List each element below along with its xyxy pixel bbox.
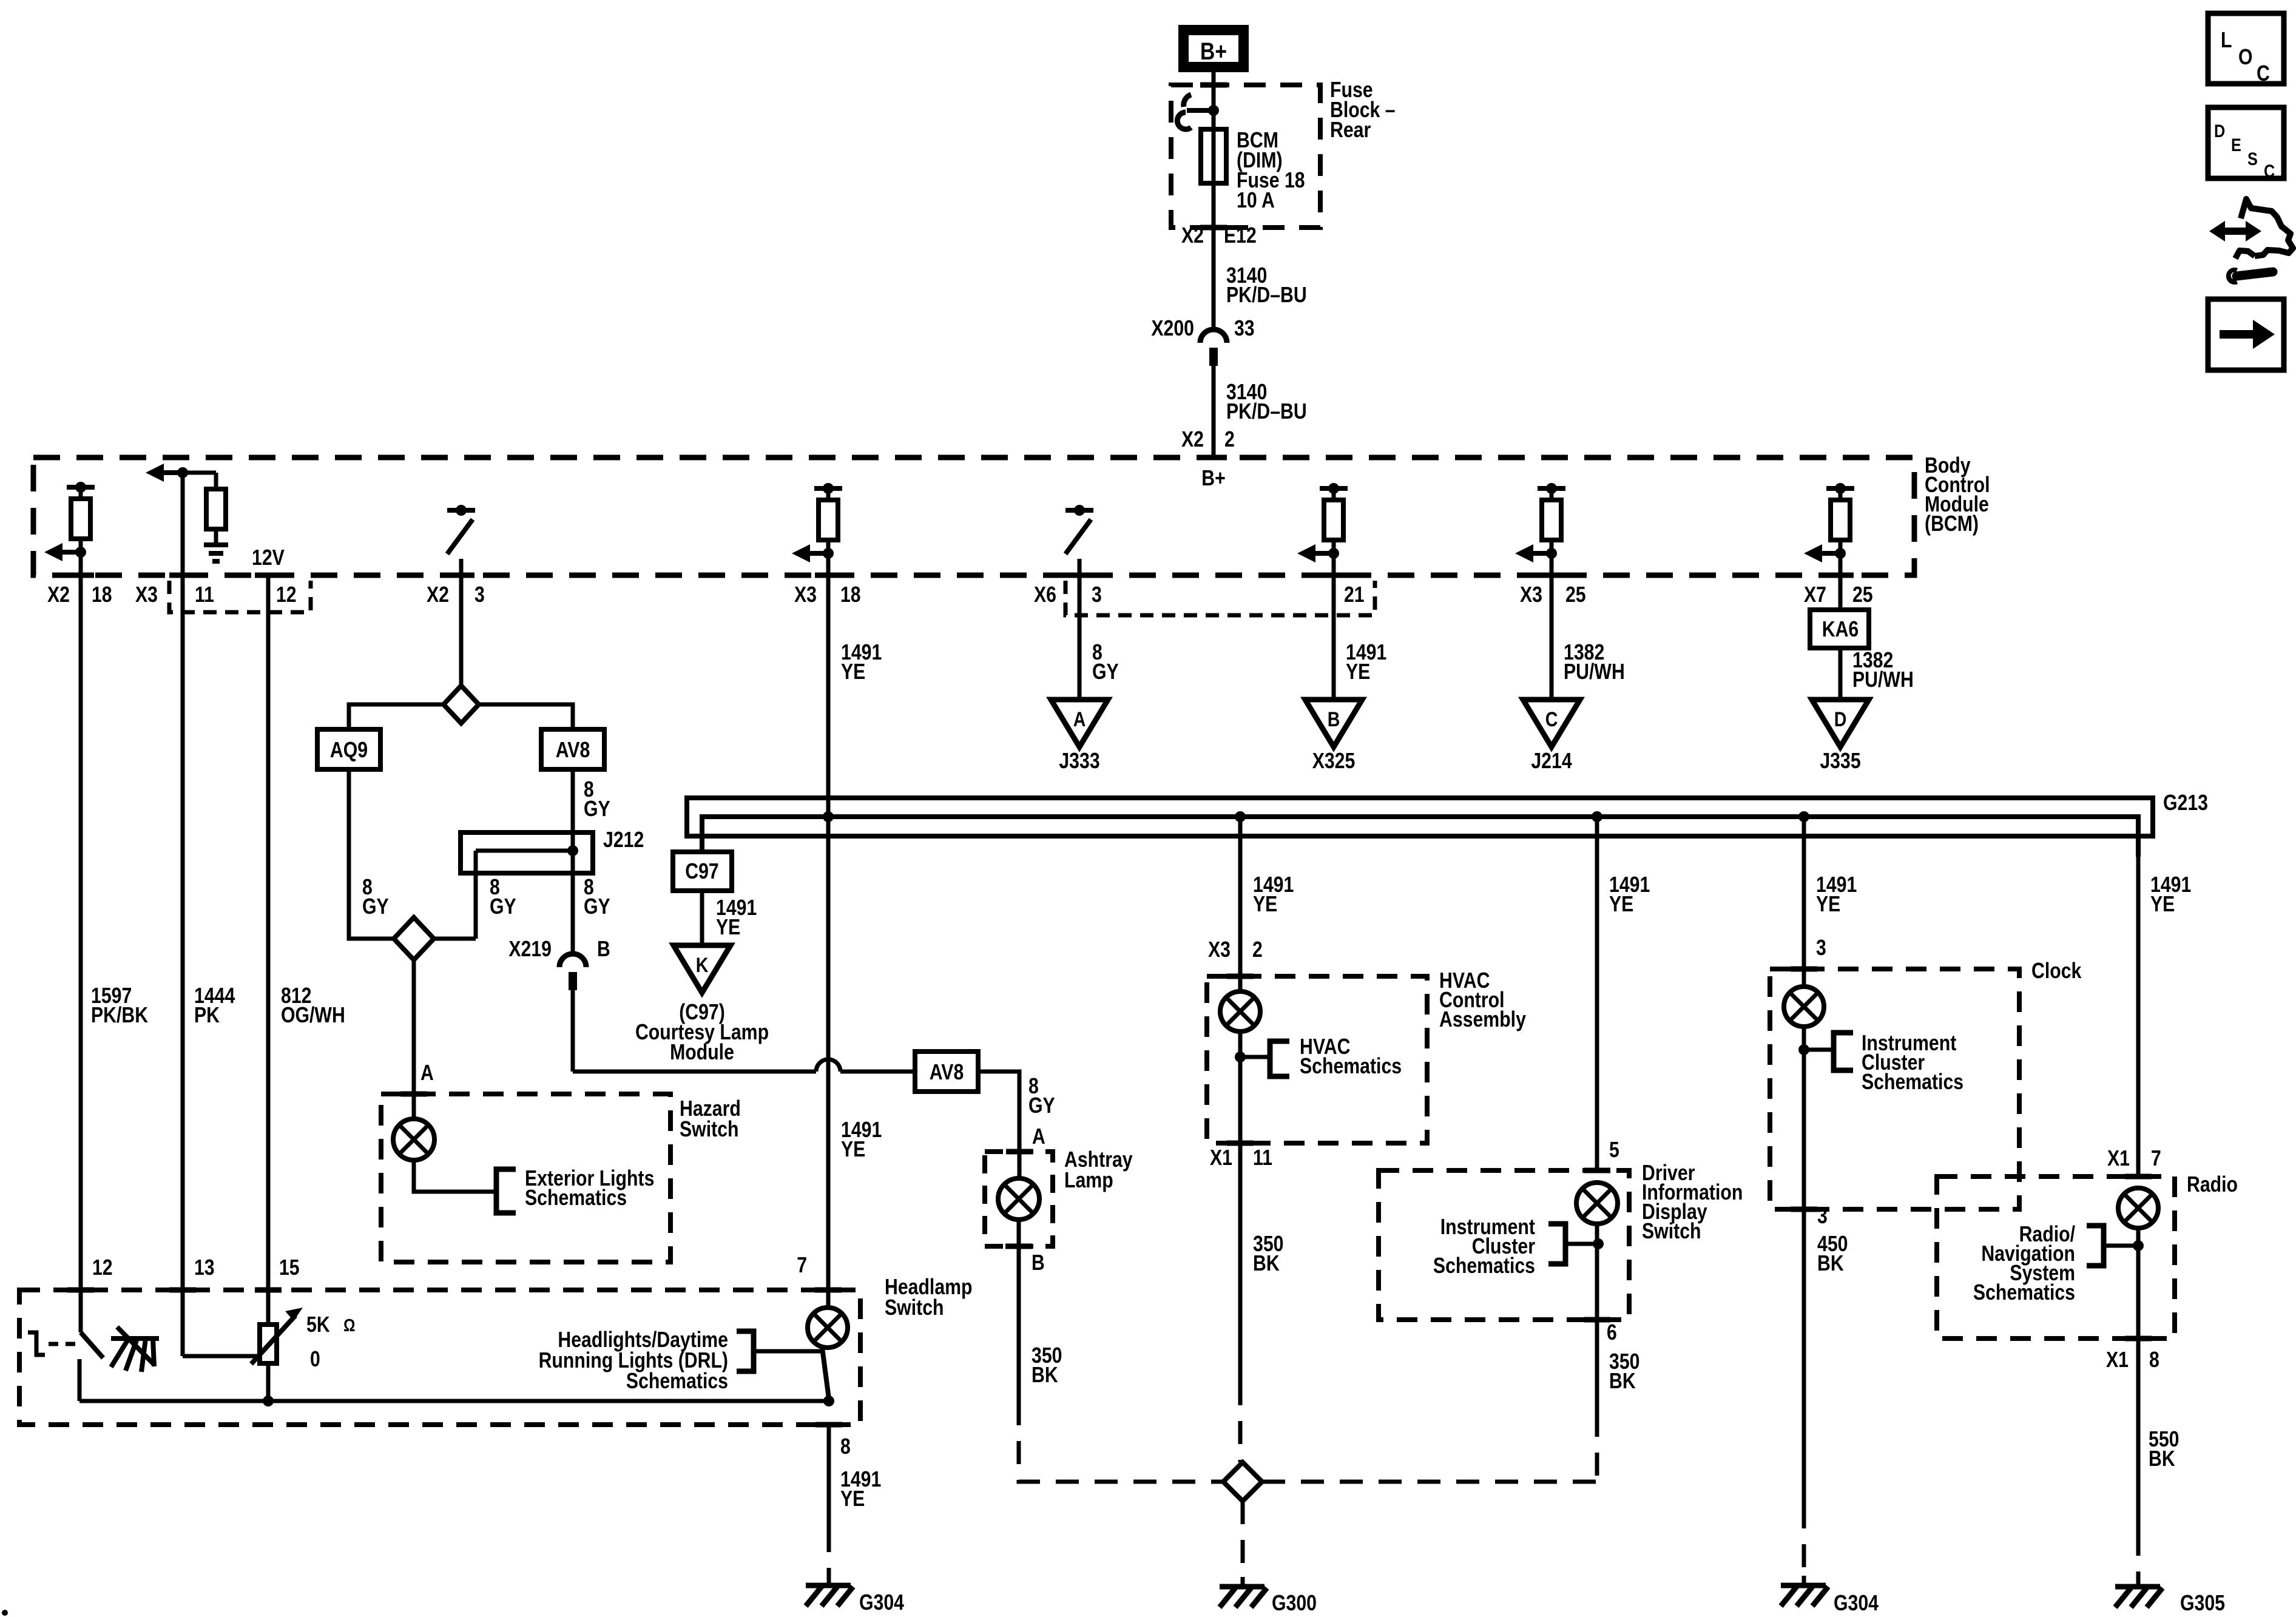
svg-text:GY: GY <box>362 894 389 919</box>
svg-text:X3: X3 <box>794 582 817 607</box>
svg-text:Schematics: Schematics <box>1973 1280 2075 1305</box>
fuse box AV8 lower <box>915 1052 978 1092</box>
svg-text:X1: X1 <box>2106 1347 2129 1372</box>
svg-text:15: 15 <box>279 1255 300 1280</box>
svg-text:33: 33 <box>1234 316 1255 340</box>
wire J212 left branch 8 GY <box>474 851 478 939</box>
svg-text:OG/WH: OG/WH <box>281 1002 345 1027</box>
diamond splice above AQ9/AV8 <box>444 686 479 723</box>
svg-text:C: C <box>1545 708 1558 731</box>
svg-text:12: 12 <box>276 582 297 607</box>
svg-text:5: 5 <box>1609 1137 1619 1162</box>
svg-text:X3: X3 <box>1520 582 1542 607</box>
svg-text:PK: PK <box>194 1002 220 1027</box>
BCM internal ground branch pin X3-11 <box>177 467 188 478</box>
svg-text:8: 8 <box>2149 1347 2159 1372</box>
headlamp switch lamp pin 7 <box>826 1290 831 1308</box>
wire C97 to K triangle 1491 YE <box>700 891 704 944</box>
connector sub-box pins 3-21 <box>1065 581 1375 615</box>
svg-text:3: 3 <box>1816 935 1826 960</box>
BCM pin ticks on bottom border <box>67 573 94 578</box>
svg-text:18: 18 <box>840 582 861 607</box>
svg-text:Rear: Rear <box>1330 117 1371 142</box>
svg-text:O: O <box>2238 44 2253 69</box>
splice box C97 <box>673 852 732 891</box>
svg-text:Lamp: Lamp <box>1064 1167 1113 1192</box>
BCM switch pin X6-3 <box>1065 508 1093 513</box>
wire HVAC lamp to pin X1-11 <box>1238 1031 1243 1143</box>
svg-text:BK: BK <box>1253 1251 1280 1275</box>
hazard switch lamp <box>412 1096 416 1119</box>
svg-text:7: 7 <box>2151 1146 2161 1170</box>
svg-text:Switch: Switch <box>680 1116 739 1141</box>
wire ashtray feed <box>1018 1149 1022 1152</box>
wire clock to G304 450 BK <box>1802 1209 1806 1505</box>
panel dimming symbol <box>111 1336 159 1341</box>
icon DESC box <box>2208 107 2284 178</box>
svg-text:Schematics: Schematics <box>1862 1069 1963 1094</box>
svg-text:5K: 5K <box>306 1312 330 1337</box>
mechanical link dashes <box>28 1332 45 1355</box>
bracket Radio Navigation System Schematics <box>2104 1244 2138 1248</box>
svg-text:BK: BK <box>1817 1251 1844 1275</box>
wire AV8/J212 to X219 8 GY <box>571 873 575 953</box>
svg-text:21: 21 <box>1344 582 1365 607</box>
svg-text:G213: G213 <box>2163 790 2208 815</box>
svg-text:GY: GY <box>490 894 516 919</box>
svg-text:3: 3 <box>474 582 485 607</box>
svg-text:B+: B+ <box>1200 38 1227 65</box>
wire ashtray to splice diamond 350 BK <box>1017 1246 1021 1402</box>
svg-text:X219: X219 <box>508 936 552 961</box>
connector X200 pin 33 <box>1200 329 1227 343</box>
svg-text:X3: X3 <box>1208 937 1231 962</box>
svg-text:(BCM): (BCM) <box>1925 511 1979 536</box>
fuse box AQ9 <box>317 729 380 769</box>
bus junction dots <box>823 811 834 822</box>
svg-text:BK: BK <box>2149 1446 2175 1471</box>
svg-text:X1: X1 <box>2107 1146 2130 1170</box>
page period mark <box>2 1610 8 1616</box>
svg-text:YE: YE <box>1816 891 1840 916</box>
svg-text:AV8: AV8 <box>556 737 590 762</box>
svg-text:PK/D–BU: PK/D–BU <box>1226 399 1307 424</box>
svg-text:J335: J335 <box>1820 748 1860 773</box>
svg-text:Switch: Switch <box>885 1295 944 1320</box>
wire 12V drop 812 OG/WH <box>266 578 271 1325</box>
wire fuse to X200 <box>1212 183 1216 328</box>
wire AV8 to J212 8 GY <box>571 769 575 832</box>
svg-text:B: B <box>1032 1250 1045 1275</box>
headlamp interior lamps switch blade pin 12 <box>79 1290 83 1332</box>
fuse holder clip symbol <box>1208 105 1219 116</box>
bracket Headlights DRL Schematics <box>737 1331 754 1371</box>
svg-text:18: 18 <box>92 582 112 607</box>
svg-text:25: 25 <box>1852 582 1873 607</box>
BCM driver resistor pin 21 <box>1320 486 1348 491</box>
triangle connector B X325 <box>1332 578 1336 700</box>
wire HVAC to splice diamond 350 BK <box>1238 1143 1243 1382</box>
svg-text:3: 3 <box>1817 1203 1828 1228</box>
headlamp switch rheostat 5K <box>181 1290 185 1356</box>
svg-text:13: 13 <box>194 1255 215 1280</box>
wire bus to HVAC 1491 YE <box>1238 817 1243 979</box>
svg-text:E12: E12 <box>1224 223 1257 248</box>
svg-text:6: 6 <box>1607 1320 1617 1345</box>
lower diamond splice <box>394 917 434 960</box>
svg-text:X7: X7 <box>1804 582 1826 607</box>
svg-text:0: 0 <box>310 1346 320 1371</box>
wire AQ9 to lower diamond 8 GY <box>349 769 394 939</box>
HVAC backlight lamp <box>1238 976 1243 991</box>
Radio dashed box <box>1937 1176 2175 1338</box>
svg-text:AQ9: AQ9 <box>330 737 368 762</box>
BCM driver resistor pin X2-18 <box>67 485 95 490</box>
splice box J212 <box>461 832 593 873</box>
wire DID to splice diamond 350 BK <box>1595 1320 1599 1414</box>
svg-text:G305: G305 <box>2180 1590 2225 1615</box>
clock lamp <box>1802 969 1806 987</box>
wire X200 to BCM <box>1212 366 1216 460</box>
svg-text:Schematics: Schematics <box>626 1368 728 1393</box>
svg-text:X2: X2 <box>1181 427 1204 451</box>
svg-text:2: 2 <box>1252 937 1263 962</box>
pin labels X1 11 <box>1227 1141 1254 1146</box>
wire clock lamp down <box>1802 1027 1806 1209</box>
triangle connector K to courtesy lamp module <box>674 945 731 993</box>
wire diamond to AQ9 <box>349 704 444 729</box>
svg-text:25: 25 <box>1565 582 1586 607</box>
svg-text:X2: X2 <box>427 582 449 607</box>
connector X3 sub-box pins 11-12 <box>169 581 311 612</box>
svg-text:12: 12 <box>92 1255 113 1280</box>
svg-text:YE: YE <box>841 1136 865 1161</box>
svg-text:X2: X2 <box>47 582 70 607</box>
wire AV8 to ashtray lamp 8 GY <box>976 1072 1019 1149</box>
svg-text:YE: YE <box>840 1486 865 1511</box>
svg-text:X325: X325 <box>1312 748 1356 773</box>
G213 illumination bus <box>687 798 2153 836</box>
svg-text:BK: BK <box>1609 1368 1636 1393</box>
svg-text:GY: GY <box>584 796 610 821</box>
svg-text:Switch: Switch <box>1642 1218 1701 1243</box>
svg-text:X200: X200 <box>1151 316 1194 340</box>
svg-text:PK/BK: PK/BK <box>91 1002 148 1027</box>
svg-text:BK: BK <box>1032 1362 1058 1387</box>
DID switch lamp <box>1576 1183 1618 1224</box>
svg-text:J333: J333 <box>1059 748 1099 773</box>
svg-text:AV8: AV8 <box>930 1059 964 1084</box>
svg-text:J214: J214 <box>1531 748 1572 773</box>
wire lower diamond to hazard switch <box>412 960 416 1096</box>
svg-text:3: 3 <box>1092 582 1102 607</box>
relay box KA6 and triangle D J335 <box>1838 578 1843 610</box>
svg-text:D: D <box>2214 121 2225 141</box>
svg-text:Clock: Clock <box>2031 958 2082 983</box>
wire X219-B down and right to AV8 <box>571 990 575 1072</box>
svg-text:YE: YE <box>1609 891 1633 916</box>
svg-text:E: E <box>2231 135 2241 155</box>
svg-text:PU/WH: PU/WH <box>1564 659 1625 684</box>
svg-text:Schematics: Schematics <box>1433 1253 1535 1278</box>
svg-text:YE: YE <box>1346 659 1370 684</box>
svg-text:A: A <box>1032 1124 1045 1149</box>
Driver Information Display Switch dashed box <box>1379 1170 1629 1320</box>
svg-text:A: A <box>1073 708 1086 731</box>
svg-text:12V: 12V <box>252 545 285 570</box>
svg-text:YE: YE <box>841 659 865 684</box>
triangle connector A J333 <box>1078 578 1082 700</box>
wire B+ to fuse block <box>1212 68 1216 132</box>
wire bus to clock 1491 YE <box>1802 817 1806 971</box>
svg-text:YE: YE <box>716 914 740 939</box>
wire radio lamp to pin X1-8 <box>2136 1228 2141 1338</box>
ground G300 <box>1241 1577 1245 1588</box>
svg-text:Schematics: Schematics <box>1300 1053 1402 1078</box>
svg-text:X6: X6 <box>1034 582 1056 607</box>
wire DID lamp to pin 6 <box>1595 1224 1599 1320</box>
svg-text:GY: GY <box>1092 659 1119 684</box>
svg-text:Schematics: Schematics <box>525 1185 627 1210</box>
svg-text:X1: X1 <box>1210 1145 1232 1170</box>
svg-text:PK/D–BU: PK/D–BU <box>1226 282 1307 307</box>
svg-text:Ω: Ω <box>343 1316 356 1335</box>
Clock dashed box <box>1770 969 2019 1209</box>
fuse BCM (DIM) Fuse 18 10A <box>1201 129 1226 183</box>
wire X2-3 switch to diamond splice <box>459 578 464 685</box>
svg-text:X3: X3 <box>135 582 158 607</box>
svg-text:GY: GY <box>1028 1093 1055 1118</box>
svg-text:11: 11 <box>195 582 214 607</box>
wire headlamp switch to G304 1491 YE <box>827 1425 831 1529</box>
svg-text:C: C <box>2264 161 2275 181</box>
ground G305 <box>2136 1577 2141 1588</box>
wire hazard lamp to bracket <box>414 1160 496 1192</box>
wire X2-18 drop 1597 PK/BK <box>79 575 83 1290</box>
ground G304 right <box>1802 1576 1806 1587</box>
wire bottom run of headlamp switch <box>79 1399 829 1403</box>
svg-text:S: S <box>2247 149 2258 169</box>
svg-text:Radio: Radio <box>2187 1172 2238 1197</box>
Body Control Module dashed box <box>33 457 1914 575</box>
svg-text:Module: Module <box>670 1039 734 1064</box>
BCM driver resistor pin X3-18 <box>814 486 842 491</box>
svg-text:8: 8 <box>840 1434 851 1459</box>
svg-text:D: D <box>1834 708 1847 731</box>
bracket HVAC Schematics <box>1240 1055 1270 1059</box>
svg-text:GY: GY <box>584 894 610 919</box>
bracket Instrument Cluster Schematics clock <box>1804 1048 1834 1052</box>
svg-text:B+: B+ <box>1201 465 1226 490</box>
svg-text:G304: G304 <box>859 1590 904 1615</box>
wire X3-18 drop to headlamp switch 1491 YE <box>826 578 831 1290</box>
wire bus to DID switch 1491 YE <box>1595 817 1599 1173</box>
wire radio to G305 550 BK <box>2136 1338 2141 1533</box>
svg-text:7: 7 <box>797 1252 807 1277</box>
svg-text:YE: YE <box>1253 891 1277 916</box>
svg-text:K: K <box>696 954 709 977</box>
wire diamond to AV8 <box>479 704 573 729</box>
icon arrow box <box>2208 299 2284 370</box>
ashtray lamp <box>1018 1152 1022 1178</box>
radio lamp <box>2118 1188 2158 1228</box>
ground G304 <box>827 1576 831 1587</box>
svg-text:C: C <box>2257 61 2270 86</box>
svg-text:B: B <box>1328 708 1340 731</box>
svg-text:PU/WH: PU/WH <box>1852 667 1914 692</box>
svg-text:2: 2 <box>1224 427 1235 451</box>
svg-text:YE: YE <box>2150 891 2175 916</box>
icon LOC box <box>2208 13 2284 84</box>
svg-text:A: A <box>420 1060 434 1085</box>
svg-text:C97: C97 <box>685 859 719 883</box>
svg-text:J212: J212 <box>603 827 644 852</box>
Hazard Switch dashed box <box>381 1094 670 1262</box>
wire right side of lower diamond <box>434 937 476 941</box>
svg-text:Assembly: Assembly <box>1439 1007 1526 1031</box>
wire X3-11 drop 1444 PK <box>181 578 185 1290</box>
HVAC Control Assembly dashed box <box>1207 976 1427 1143</box>
splice diamond to G300 <box>1223 1462 1262 1501</box>
svg-text:L: L <box>2221 27 2232 52</box>
headlamp switch blade <box>822 1348 829 1399</box>
BCM driver resistor pin X3-25 <box>1538 486 1565 491</box>
svg-text:G304: G304 <box>1834 1590 1879 1615</box>
svg-text:10 A: 10 A <box>1237 187 1275 212</box>
svg-text:11: 11 <box>1253 1145 1272 1170</box>
Fuse Block - Rear dashed box <box>1171 85 1320 228</box>
svg-text:KA6: KA6 <box>1822 616 1859 641</box>
Headlamp Switch assembly dashed box <box>19 1290 860 1425</box>
svg-text:B: B <box>597 936 610 961</box>
fuse box AV8 <box>541 729 604 769</box>
B+ power feed box <box>1183 29 1244 68</box>
svg-text:G300: G300 <box>1272 1590 1317 1615</box>
triangle connector C J214 <box>1550 578 1554 700</box>
BCM driver resistor pin X7-25 <box>1826 486 1854 491</box>
wire bus to radio 1491 YE <box>2136 857 2141 1179</box>
svg-text:X2: X2 <box>1181 223 1204 248</box>
BCM switch pin X2-3 <box>447 508 475 513</box>
bracket Exterior Lights Schematics <box>496 1169 516 1213</box>
connector X219 pin B <box>559 954 586 967</box>
icon vehicle with arrow and wrench <box>2215 228 2256 235</box>
Ashtray Lamp dashed box <box>985 1152 1053 1246</box>
bracket Instrument Cluster Schematics DID <box>1565 1242 1598 1246</box>
